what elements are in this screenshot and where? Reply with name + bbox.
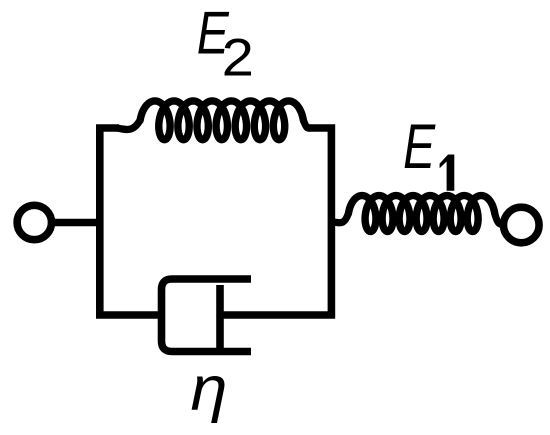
svg-text:2: 2 [222, 28, 254, 87]
svg-text:η: η [191, 353, 228, 424]
svg-text:E: E [403, 111, 436, 182]
